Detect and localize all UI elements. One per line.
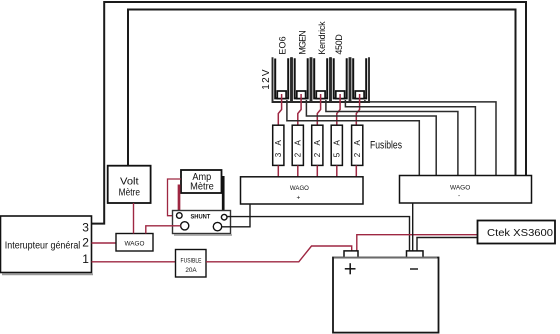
- wire red socket5 to fuse F5: [356, 94, 359, 125]
- wire red socket3 to fuse F3: [317, 94, 320, 125]
- label EO6: [278, 36, 288, 54]
- wire red F3 to WAGO: [316, 165, 318, 176]
- wire dark socket1 to right WAGO: [287, 100, 419, 176]
- wire black thick Amp Metre to shunt small-right: [222, 176, 225, 215]
- svg-text:5 A: 5 A: [333, 140, 342, 158]
- label 12V: [261, 69, 272, 90]
- battery minus sign: [410, 268, 418, 270]
- svg-text:Ctek XS3600: Ctek XS3600: [487, 227, 553, 239]
- shunt terminal small-right: [221, 214, 227, 220]
- svg-text:Mètre: Mètre: [119, 188, 141, 199]
- wire black right WAGO to battery minus: [412, 203, 414, 251]
- SHUNT box: [173, 211, 233, 236]
- svg-text:+: +: [297, 195, 301, 202]
- svg-text:Fusibles: Fusibles: [370, 139, 402, 151]
- shunt terminal large-left: [181, 222, 189, 230]
- Amp Metre box U3: [181, 170, 222, 193]
- battery terminal plus: [344, 251, 358, 258]
- svg-text:20A: 20A: [185, 268, 196, 274]
- svg-text:12V: 12V: [261, 69, 272, 90]
- wire dark socket3 to right WAGO: [326, 100, 458, 176]
- Ctek XS3600 box: [478, 221, 556, 244]
- wire dark socket5 to right WAGO: [365, 100, 496, 176]
- shunt terminal large-right: [213, 222, 221, 230]
- fuse F1 3A: [273, 125, 284, 165]
- wire black shunt small-right to battery minus: [227, 217, 410, 251]
- wire: inner top loop from Volt Metre to right WAGO: [128, 10, 516, 176]
- wire red F5 to WAGO: [355, 165, 357, 176]
- wire red thick Amp Metre to shunt small-left: [178, 185, 181, 213]
- svg-text:1: 1: [82, 252, 89, 266]
- wire red Volt Metre to small WAGO: [133, 203, 135, 234]
- battery top edge: [334, 257, 437, 259]
- fuse F3 2A: [312, 125, 323, 165]
- wire: outer top loop from interrupteur pin 3 to right WAGO: [92, 2, 527, 224]
- svg-text:450D: 450D: [334, 34, 344, 55]
- socket MGEN: [292, 57, 311, 102]
- svg-text:MGEN: MGEN: [297, 30, 307, 54]
- interrupteur general box S1: [1, 216, 94, 274]
- svg-text:WAGO: WAGO: [450, 185, 470, 192]
- wire red battery plus to Ctek: [357, 235, 478, 251]
- svg-text:-: -: [458, 193, 460, 200]
- label Kendrick: [317, 21, 327, 55]
- svg-text:WAGO: WAGO: [125, 240, 145, 247]
- WAGO small box: [116, 234, 153, 252]
- svg-text:Interupteur général: Interupteur général: [5, 241, 81, 252]
- wire black Ctek to battery minus: [417, 238, 478, 252]
- svg-text:3 A: 3 A: [274, 140, 283, 158]
- wire red F2 to WAGO: [297, 165, 299, 176]
- battery plus sign: [345, 263, 356, 274]
- fuse F5 2A: [352, 125, 363, 165]
- wire red thin loop Amp Metre to shunt small-left: [168, 179, 182, 216]
- svg-text:SHUNT: SHUNT: [190, 214, 210, 221]
- wire red F1 to WAGO: [277, 165, 279, 176]
- svg-text:EO6: EO6: [278, 36, 288, 54]
- svg-text:FUSIBLE: FUSIBLE: [181, 258, 202, 264]
- WAGO center (+) box: [241, 177, 364, 204]
- socket Kendrick: [312, 57, 331, 102]
- wire red fusible to battery plus: [206, 246, 352, 262]
- WAGO right (-) box: [400, 176, 532, 204]
- svg-text:2 A: 2 A: [313, 140, 322, 158]
- svg-text:Mètre: Mètre: [190, 181, 214, 192]
- wire red socket2 to fuse F2: [298, 94, 301, 125]
- socket EO6: [273, 57, 292, 102]
- fuse F2 2A: [292, 125, 303, 165]
- wire black shunt large-right to WAGO center: [222, 204, 250, 227]
- shunt terminal small-left: [177, 213, 183, 219]
- battery terminal minus: [407, 251, 424, 258]
- fusible 20A box F6: [176, 250, 207, 278]
- svg-text:2 A: 2 A: [294, 140, 303, 158]
- socket 450D: [331, 57, 350, 102]
- svg-text:Volt: Volt: [120, 176, 139, 187]
- wire red socket4 to fuse F4: [337, 94, 340, 125]
- wire red pin2 to small WAGO: [92, 242, 117, 244]
- battery BT1: [333, 258, 439, 333]
- Volt Metre box U2: [108, 166, 151, 203]
- fuse F4 5A: [331, 125, 342, 165]
- wire dark socket4 to right WAGO: [345, 100, 475, 176]
- svg-text:Kendrick: Kendrick: [317, 21, 327, 55]
- wire red socket1 to fuse F1: [278, 94, 281, 125]
- socket 5 (unlabelled): [351, 57, 370, 102]
- wire red pin1 to fusible 20A: [92, 261, 176, 263]
- label 450D: [334, 34, 344, 55]
- svg-text:2: 2: [82, 236, 89, 250]
- svg-text:WAGO: WAGO: [290, 185, 309, 192]
- wire dark socket2 to right WAGO: [306, 100, 436, 176]
- wire red F4 to WAGO: [336, 165, 338, 176]
- svg-text:2 A: 2 A: [353, 140, 362, 158]
- svg-text:3: 3: [82, 221, 89, 235]
- wire red small WAGO to shunt large-left: [146, 226, 181, 234]
- label MGEN: [297, 30, 307, 54]
